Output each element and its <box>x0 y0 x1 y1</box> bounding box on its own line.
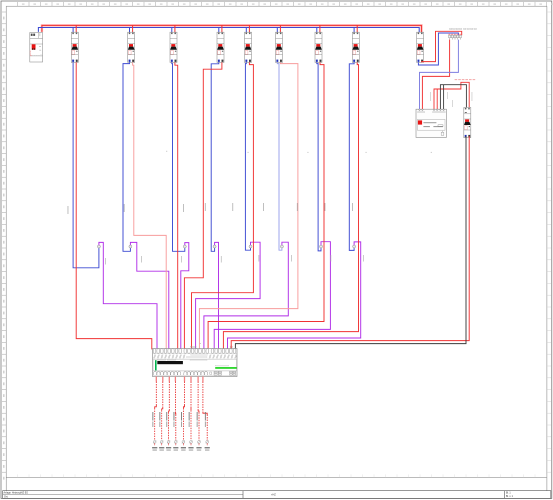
junction node X8 <box>353 245 356 248</box>
terminal strip X9 <box>448 28 476 39</box>
wire valve feed 4 (violet) <box>215 242 219 349</box>
terminal node V2 <box>160 441 163 444</box>
wire 24V DC - distribution (black) <box>440 85 466 110</box>
wire N breaker F9 to terminals (blue) <box>418 33 458 65</box>
wire terminal to PSU L (red) <box>422 40 449 110</box>
terminal label V7 <box>196 447 201 448</box>
terminal node V4 <box>174 441 177 444</box>
wire labels <box>68 203 364 265</box>
circuit breaker F5 <box>245 32 252 62</box>
bus drop to breaker F1 <box>72 28 74 33</box>
bus drop to breaker F7 <box>316 28 318 33</box>
bus drop to breaker F6 <box>276 28 278 33</box>
bus drop to breaker F8 <box>353 28 355 33</box>
svg-text:Ort:: Ort: <box>4 496 8 499</box>
valve circuit wire V5 (dashed red) <box>184 377 186 382</box>
wire valve feed 3 (violet) <box>181 243 189 350</box>
wire L breaker F2 (red) <box>133 62 167 349</box>
circuit breaker F9 <box>417 32 424 62</box>
wire label V6 <box>188 412 191 421</box>
power supply G1 <box>416 109 446 137</box>
wire label V3 <box>165 412 168 421</box>
junction node X4 <box>213 245 216 248</box>
wire N breaker F4 (blue) <box>211 62 219 251</box>
circuit breaker F3 <box>170 32 177 62</box>
wire L breaker F5 (red) <box>192 62 254 349</box>
labels 24VDC nets <box>430 79 475 107</box>
wire N breaker F6 (blue) <box>277 62 282 250</box>
dc breaker F10 <box>464 108 471 138</box>
bus drop to breaker F4 <box>218 28 220 33</box>
valve circuit wire V6 (dashed red) <box>190 377 192 382</box>
terminal label V5 <box>181 447 186 448</box>
wire N breaker F8 (blue) <box>349 62 354 250</box>
wire label V2 <box>158 412 161 421</box>
junction node X6 <box>280 245 283 248</box>
wire N breaker F2 (blue) <box>123 62 130 251</box>
bus drop to breaker F3 <box>171 28 173 33</box>
terminal node V7 <box>198 441 201 444</box>
terminal node V8 <box>206 441 209 444</box>
circuit breaker F6 <box>276 32 283 62</box>
svg-text:+HZ: +HZ <box>271 494 276 497</box>
wire N breaker F7 (blue) <box>317 62 321 251</box>
terminal node V1 <box>153 441 156 444</box>
valve circuit wire V8 (dashed red) <box>202 377 204 382</box>
circuit breaker F1 <box>71 32 78 62</box>
grid reference marks <box>166 151 431 344</box>
wire L breaker F7 (red) <box>208 62 324 349</box>
valve circuit wire V3 (dashed red) <box>168 377 170 382</box>
circuit breaker F7 <box>315 32 322 62</box>
terminal label V2 <box>159 447 164 448</box>
valve circuit wire V4 (dashed red) <box>174 377 176 382</box>
wire L breaker F1 (red) <box>76 62 152 349</box>
title block <box>3 491 551 499</box>
terminal label V6 <box>188 447 193 448</box>
wire valve feed 8 (violet) <box>228 242 361 350</box>
wire 24V+ to controller (red) <box>231 136 469 349</box>
terminal label V8 <box>205 447 210 448</box>
terminal label V1 <box>152 447 157 448</box>
wire L breaker F4 (red) <box>184 62 222 349</box>
wire valve feed 5 (violet) <box>196 242 261 349</box>
wire terminal to PSU N (violet-blue) <box>420 40 459 110</box>
junction node X3 <box>183 245 186 248</box>
wire L breaker F6 (red) <box>199 62 298 349</box>
terminal label V4 <box>173 447 178 448</box>
wire label V1 <box>151 412 154 421</box>
wire L breaker F9 to terminals (red) <box>422 31 462 62</box>
wire valve feed 1 (violet) <box>99 242 157 349</box>
wire N bus (blue) <box>38 28 419 33</box>
label at F10 <box>465 112 467 114</box>
terminal node V5 <box>182 441 185 444</box>
wire label V8 <box>204 412 207 421</box>
wire label V5 <box>180 412 183 421</box>
circuit breaker F4 <box>217 32 224 62</box>
terminal label V3 <box>166 447 171 448</box>
wire valve feed 6 (violet) <box>204 242 288 349</box>
wire L breaker F8 (red) <box>223 62 358 349</box>
heating controller A1 <box>153 346 238 376</box>
circuit breaker F8 <box>352 32 359 62</box>
valve circuit wire V1 (dashed red) <box>155 377 157 382</box>
valve circuit wire V2 (dashed red) <box>162 377 164 382</box>
wire 24V DC + distribution (red) <box>434 82 469 109</box>
wire N breaker F1 (blue) <box>73 62 99 267</box>
wire label V7 <box>196 412 199 421</box>
valve circuit wire V7 (dashed red) <box>197 377 199 382</box>
main switch Q1 <box>30 33 43 63</box>
wire valve feed 2 (violet) <box>130 242 168 349</box>
junction node X2 <box>129 245 132 248</box>
junction node X5 <box>249 245 252 248</box>
junction dot at controller supply <box>230 346 232 348</box>
wire L breaker F3 (red) <box>175 62 178 349</box>
wire N breaker F5 (blue) <box>245 62 250 250</box>
wire N breaker F3 (blue) <box>172 62 185 251</box>
svg-text:Bl. 1: Bl. 1 <box>506 493 511 495</box>
wire label V4 <box>173 412 176 421</box>
svg-text:Anlage: Heizung/HZ EG: Anlage: Heizung/HZ EG <box>4 492 29 495</box>
wire 24V- to controller (black) <box>235 136 466 349</box>
junction node X1 <box>97 245 100 248</box>
terminal node V3 <box>167 441 170 444</box>
wire L bus (red) <box>42 25 422 32</box>
junction node X7 <box>320 245 323 248</box>
bus drop to breaker F5 <box>245 28 247 33</box>
bus drop to breaker F2 <box>129 28 131 33</box>
terminal node V6 <box>190 441 193 444</box>
svg-text:Bl. v. 1: Bl. v. 1 <box>506 496 514 498</box>
circuit breaker F2 <box>128 32 135 62</box>
wire valve feed 7 (violet) <box>214 242 330 350</box>
